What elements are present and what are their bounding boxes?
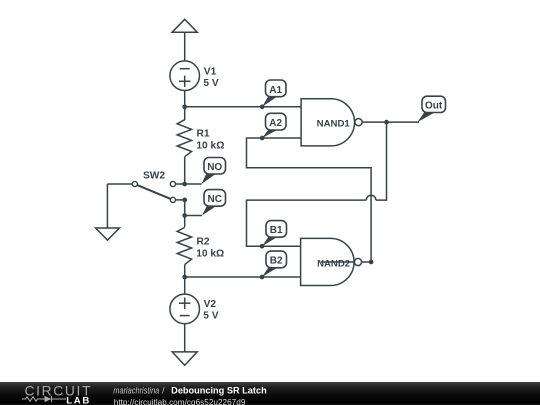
svg-text:CIRCUIT: CIRCUIT [25,383,92,398]
svg-text:5 V: 5 V [203,78,218,89]
svg-text:NC: NC [207,194,221,205]
svg-text:NAND2: NAND2 [317,258,350,269]
svg-text:Debouncing SR Latch: Debouncing SR Latch [171,385,267,395]
svg-text:5 V: 5 V [203,310,218,321]
svg-text:A2: A2 [269,118,282,129]
svg-text:Out: Out [425,101,443,112]
svg-text:R2: R2 [197,237,210,248]
svg-text:V1: V1 [204,67,217,78]
svg-text:/: / [162,385,165,395]
svg-text:10 kΩ: 10 kΩ [196,248,224,259]
svg-text:R1: R1 [197,128,210,139]
svg-text:mariachristina: mariachristina [113,385,159,395]
svg-text:V2: V2 [204,299,217,310]
svg-text:NAND1: NAND1 [317,118,351,129]
svg-text:B1: B1 [270,225,283,236]
svg-text:http://circuitlab.com/cg6s52u2: http://circuitlab.com/cg6s52u2267d9 [114,396,246,405]
svg-text:LAB: LAB [66,395,89,405]
svg-text:SW2: SW2 [143,171,165,182]
svg-text:10 kΩ: 10 kΩ [196,140,224,151]
svg-text:B2: B2 [270,256,283,267]
svg-text:NO: NO [207,162,222,173]
svg-text:A1: A1 [269,85,282,96]
